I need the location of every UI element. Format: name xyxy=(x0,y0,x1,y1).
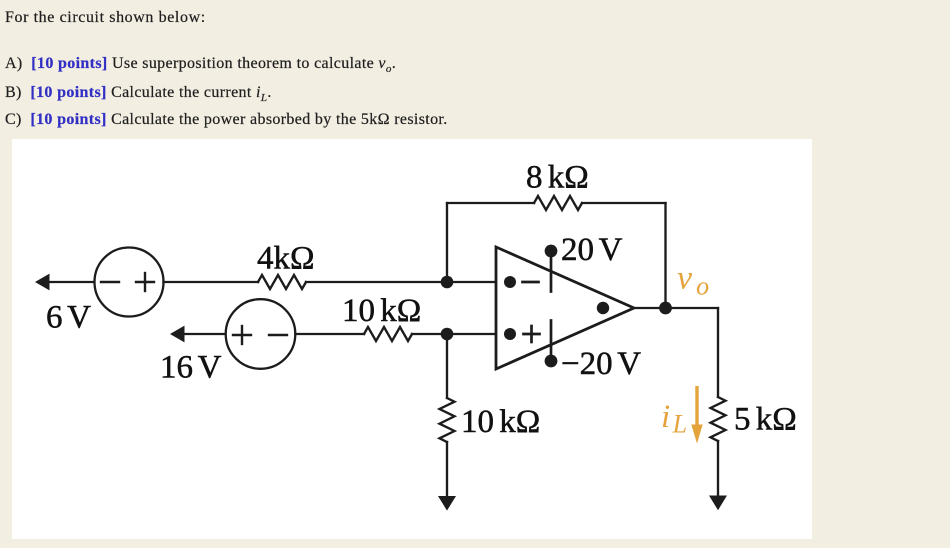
wire: negative supply stub xyxy=(550,321,553,362)
item A xyxy=(5,56,396,77)
plus sign of V1 xyxy=(136,273,154,291)
prompt line xyxy=(5,10,206,26)
voltage source V2 16V xyxy=(226,299,296,369)
node: non-inverting input pin dot xyxy=(504,328,516,340)
op-amp U1 triangle xyxy=(496,247,634,369)
wire: op-amp output to load corner xyxy=(634,307,718,309)
resistor R4 5kOhm vertical xyxy=(711,397,726,441)
resistor R3 8kOhm feedback xyxy=(534,196,582,210)
wire: feedback right vertical xyxy=(664,203,666,308)
wire: V1 to resistor 4k xyxy=(164,281,259,283)
wire: load vertical top xyxy=(717,308,719,397)
wire: feedback top right segment xyxy=(582,202,666,204)
circuit figure xyxy=(12,139,812,539)
item C xyxy=(5,112,448,128)
wire: 10k ground branch vertical top xyxy=(446,334,448,398)
wire: feedback top left segment xyxy=(447,202,534,204)
svg-text:vo: vo xyxy=(677,260,709,301)
ground arrow left xyxy=(438,496,456,511)
svg-text:5 kΩ: 5 kΩ xyxy=(734,402,797,438)
plus sign of V2 xyxy=(233,326,251,344)
node: output junction vo xyxy=(659,302,672,315)
wire: feedback left vertical xyxy=(446,203,448,282)
node: non-inverting junction xyxy=(441,328,454,341)
arrow iL direction xyxy=(695,386,698,427)
item B xyxy=(5,85,272,106)
node: inverting input pin dot xyxy=(504,276,516,288)
plus sign at non-inverting input xyxy=(524,326,540,342)
svg-text:10 kΩ: 10 kΩ xyxy=(342,293,421,329)
svg-text:20 V: 20 V xyxy=(561,232,623,268)
arrow: left terminal of 6V branch xyxy=(35,274,50,291)
svg-text:iL: iL xyxy=(661,399,687,439)
svg-text:−20 V: −20 V xyxy=(561,346,641,382)
resistor R5 10kOhm vertical xyxy=(440,398,455,442)
arrow: left terminal of 16V branch xyxy=(170,326,185,343)
voltage source V1 6V xyxy=(95,248,164,317)
svg-text:8 kΩ: 8 kΩ xyxy=(526,160,589,196)
svg-text:4kΩ: 4kΩ xyxy=(257,241,315,277)
wire: R2 to op-amp non-inverting input xyxy=(412,333,496,335)
wire: V2 to resistor 10k xyxy=(295,333,364,335)
wire: R1 to op-amp inverting input xyxy=(306,281,496,283)
wire: 10k ground branch vertical bottom xyxy=(446,442,448,497)
wire: 16V source left lead xyxy=(184,333,226,335)
resistor R2 10kOhm horizontal xyxy=(364,327,412,341)
resistor R1 4kOhm xyxy=(258,275,306,289)
wire: load vertical bottom xyxy=(717,441,719,497)
node: -20V supply dot xyxy=(545,355,558,368)
wire: 6V source left lead xyxy=(48,281,95,283)
minus sign of V1 xyxy=(101,281,119,283)
svg-text:16 V: 16 V xyxy=(160,350,222,386)
svg-text:10 kΩ: 10 kΩ xyxy=(461,404,540,440)
minus sign at inverting input xyxy=(523,281,539,284)
node: inverting junction xyxy=(441,276,454,289)
svg-text:6 V: 6 V xyxy=(46,300,91,336)
node: +20V supply dot xyxy=(545,245,558,258)
wire: positive supply stub xyxy=(550,251,553,292)
ground arrow right xyxy=(709,496,727,511)
node: output pin dot xyxy=(597,302,609,314)
minus sign of V2 xyxy=(269,334,287,336)
